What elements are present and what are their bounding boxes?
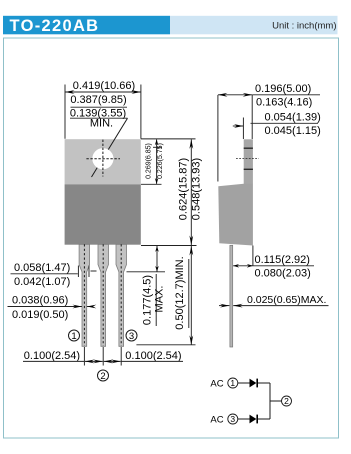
dim tail under 0.115 (253, 265, 314, 267)
tab thickness arrow (233, 125, 244, 127)
svg-text:Unit : inch(mm): Unit : inch(mm) (272, 20, 336, 31)
separator line 0.058/0.042 (11, 273, 78, 275)
opposing arrow right of lead1 (87, 306, 93, 308)
lead 1 (79, 244, 90, 346)
pin1 callout (69, 330, 80, 342)
svg-text:0.163(4.16): 0.163(4.16) (256, 96, 312, 108)
svg-text:0.042(1.07): 0.042(1.07) (14, 276, 70, 288)
dim line 0.50 MIN (190, 246, 192, 345)
mounting hole (92, 148, 113, 169)
svg-text:0.100(2.54): 0.100(2.54) (24, 350, 80, 362)
svg-text:0.387(9.85): 0.387(9.85) (70, 94, 126, 106)
pitch arrows 2-3 (104, 360, 121, 362)
lead pitch ext line 1 (83, 347, 85, 366)
lead tips extension line right (136, 344, 195, 346)
svg-text:1: 1 (230, 378, 235, 388)
front view body (65, 184, 141, 244)
side view tab strip (244, 139, 253, 184)
separator line right of 0.50 label (188, 259, 190, 328)
svg-text:AC: AC (210, 414, 223, 425)
svg-text:AC: AC (210, 378, 223, 389)
lead offset dim line 0.115/0.080 (233, 265, 253, 267)
svg-text:0.025(0.65)MAX.: 0.025(0.65)MAX. (247, 294, 326, 306)
hole edge line bottom (244, 168, 253, 170)
separator line 0.054/0.045 (251, 122, 319, 124)
svg-text:0.419(10.66): 0.419(10.66) (73, 80, 135, 92)
svg-text:1: 1 (71, 331, 76, 342)
hole leader diagonal (92, 118, 128, 177)
hole crosshair (86, 158, 120, 160)
node 2 circle (282, 396, 292, 406)
separator line 0.177/MAX rotated (155, 274, 157, 326)
lead pitch ext line 3 (120, 347, 122, 366)
depth ext line right (251, 95, 253, 139)
hole edge line top (244, 147, 253, 149)
underline right pitch label (121, 360, 183, 362)
output wire to node 2 (270, 400, 281, 402)
depth dim line 0.196/0.163 (218, 94, 252, 96)
pin2 callout (98, 370, 109, 382)
side view lead (230, 245, 233, 347)
width dim extension line left (64, 85, 66, 139)
svg-text:0.054(1.39): 0.054(1.39) (265, 112, 321, 124)
wire node3 to D2 (238, 418, 250, 420)
svg-text:0.058(1.47): 0.058(1.47) (14, 262, 70, 274)
svg-text:MAX.: MAX. (154, 286, 166, 313)
svg-text:0.226(5.75): 0.226(5.75) (157, 143, 164, 179)
lead thickness arrow left (219, 305, 229, 307)
svg-text:0.100(2.54): 0.100(2.54) (125, 350, 181, 362)
dim line 0.038 with arrow to lead (8, 306, 82, 308)
node 1 circle (228, 378, 238, 388)
depth ext line left (217, 95, 219, 182)
pitch arrows 1-2 (85, 360, 103, 362)
svg-text:0.50(12.7)MIN.: 0.50(12.7)MIN. (174, 256, 186, 329)
hole centerline dashed (236, 158, 259, 160)
svg-text:3: 3 (129, 331, 134, 342)
lead shoulder extension line (127, 271, 166, 273)
leader shoulder line under 0.139 (70, 117, 128, 119)
common bus wire (269, 383, 271, 419)
lead width tick right (88, 266, 90, 278)
svg-text:3: 3 (230, 414, 235, 424)
body bottom extension line (141, 245, 197, 247)
tab top extension line (141, 138, 196, 140)
front view tab (65, 139, 141, 184)
svg-text:0.548(13.93): 0.548(13.93) (191, 158, 203, 220)
lead offset ext line (252, 246, 254, 267)
depth dim line tail under text (252, 94, 320, 96)
header blue title bar (3, 16, 170, 35)
lead 2 (98, 244, 109, 346)
svg-text:0.177(4.5): 0.177(4.5) (142, 275, 154, 325)
svg-text:0.196(5.00): 0.196(5.00) (255, 83, 311, 95)
wire D1 to bus (258, 382, 270, 384)
svg-text:0.269(6.85): 0.269(6.85) (146, 143, 153, 179)
separator line under 0.387 (71, 106, 128, 108)
wire node1 to D1 (238, 382, 250, 384)
lead pitch ext line 2 (102, 347, 104, 366)
header light bar (170, 16, 338, 35)
svg-text:TO-220AB: TO-220AB (10, 17, 100, 35)
tab height dim line (156, 139, 158, 184)
stub right of lead1 (91, 270, 97, 272)
svg-text:2: 2 (100, 371, 105, 382)
svg-text:MIN.: MIN. (90, 117, 113, 129)
svg-text:0.624(15.87): 0.624(15.87) (178, 158, 190, 220)
lead 3 (116, 244, 127, 346)
diode D2 (250, 415, 259, 424)
svg-text:0.019(0.50): 0.019(0.50) (12, 309, 68, 321)
dim line 0.177 MAX (156, 246, 158, 272)
lead width tick left (77, 266, 79, 278)
package height dim line 0.624/0.548 (190, 139, 192, 245)
diode D1 (250, 379, 259, 388)
lead thickness dim line 0.025 (233, 305, 328, 307)
svg-text:0.115(2.92): 0.115(2.92) (255, 254, 310, 266)
pin3 callout (126, 330, 137, 342)
dim line 0.419/0.387 (65, 91, 141, 93)
body top extension line (141, 183, 162, 185)
underline left pitch label (23, 360, 84, 362)
side view body (218, 184, 253, 246)
tab thickness ext line (242, 118, 244, 140)
width dim extension line right (140, 85, 142, 139)
wire D2 to bus (258, 418, 270, 420)
svg-text:0.045(1.15): 0.045(1.15) (265, 125, 321, 137)
svg-text:2: 2 (284, 396, 289, 406)
node 3 circle (228, 414, 238, 424)
0.226 top tick (153, 146, 162, 148)
svg-text:0.038(0.96): 0.038(0.96) (12, 295, 68, 307)
svg-text:0.080(2.03): 0.080(2.03) (255, 267, 311, 279)
